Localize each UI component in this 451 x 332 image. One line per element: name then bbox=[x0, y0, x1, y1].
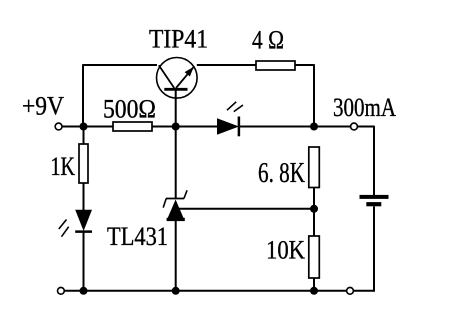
svg-text:300mA: 300mA bbox=[333, 93, 396, 122]
wire battery riser lower bbox=[373, 206, 375, 291]
terminal bottom-right bbox=[347, 287, 354, 294]
svg-text:10K: 10K bbox=[266, 236, 305, 265]
resistor 6.8K body bbox=[309, 147, 320, 188]
wire 1K to LED bbox=[83, 183, 85, 210]
wire bottom rail bbox=[64, 290, 347, 292]
node bottom junction right bbox=[310, 287, 318, 295]
node base junction bbox=[172, 123, 180, 131]
svg-text:1K: 1K bbox=[51, 152, 76, 181]
wire 6.8K to 10K bbox=[313, 188, 315, 237]
node bottom junction middle bbox=[172, 287, 180, 295]
svg-text:4 Ω: 4 Ω bbox=[252, 26, 284, 55]
wire battery riser upper bbox=[373, 126, 375, 195]
LED D1 bbox=[59, 210, 92, 237]
node reference junction bbox=[310, 205, 318, 213]
wire base branch riser bbox=[175, 89, 177, 199]
resistor 500 ohm body bbox=[113, 122, 152, 131]
terminal bottom-left bbox=[58, 287, 65, 294]
transistor Q1 TIP41 bbox=[157, 58, 198, 99]
wire TL431 anode to bottom rail bbox=[175, 221, 177, 291]
wire bottom rail right segment bbox=[353, 290, 375, 292]
LED D2 bbox=[217, 102, 243, 137]
wire 1K branch upper bbox=[83, 127, 85, 145]
terminal +9V bbox=[55, 123, 62, 130]
wire main rail segment C bbox=[239, 126, 351, 128]
svg-text:TL431: TL431 bbox=[107, 222, 168, 251]
wire top rail left segment bbox=[83, 64, 157, 66]
resistor 4ohm body bbox=[256, 61, 295, 70]
wire top rail mid segment bbox=[197, 64, 256, 66]
wire top rail right segment bbox=[295, 64, 314, 66]
terminal 300mA output bbox=[351, 123, 358, 130]
svg-text:TIP41: TIP41 bbox=[149, 25, 208, 54]
wire reference line bbox=[177, 208, 314, 210]
node output junction bbox=[310, 123, 318, 131]
battery BT1 bbox=[360, 195, 389, 206]
node junction top-left bbox=[80, 123, 88, 131]
svg-text:500Ω: 500Ω bbox=[103, 95, 156, 124]
wire right riser top bbox=[313, 64, 315, 126]
svg-text:6. 8K: 6. 8K bbox=[258, 158, 305, 189]
resistor 1K body bbox=[79, 144, 88, 183]
wire 10K to bottom rail bbox=[313, 278, 315, 291]
wire top-left riser bbox=[82, 64, 84, 126]
wire main rail segment A bbox=[62, 126, 113, 128]
wire main rail segment B bbox=[152, 126, 218, 128]
node bottom junction left bbox=[80, 287, 88, 295]
resistor 10K body bbox=[309, 236, 320, 278]
wire LED to bottom rail bbox=[83, 232, 85, 291]
wire output to battery corner bbox=[357, 126, 374, 128]
shunt regulator U1 TL431 bbox=[163, 190, 187, 221]
svg-text:+9V: +9V bbox=[22, 92, 64, 121]
